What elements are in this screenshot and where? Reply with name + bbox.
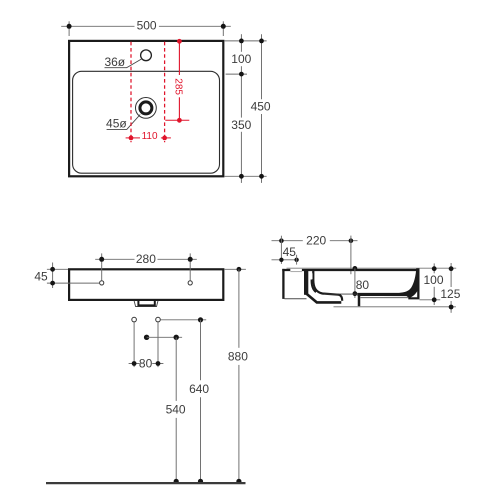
bowl wall thickening below overflow: [311, 280, 316, 293]
svg-text:80: 80: [139, 356, 153, 370]
red dimension 110 horizontal: [126, 137, 140, 139]
dimension 45 front: [52, 263, 54, 289]
dimension 640: [160, 319, 206, 321]
leader line 36ø: [105, 59, 142, 68]
dimension 45 side: [272, 259, 299, 261]
svg-text:450: 450: [251, 100, 271, 114]
top view inner basin rounded rectangle: [73, 71, 220, 173]
foot leader right: [420, 299, 441, 301]
top view outer rim rectangle: [69, 41, 223, 176]
dimension 220: [272, 240, 303, 242]
leader top right: [225, 40, 267, 42]
svg-text:280: 280: [136, 252, 156, 266]
wall fixing hole right: [188, 281, 192, 285]
drain right wall: [358, 294, 361, 306]
inner wall bar: [304, 271, 308, 295]
dimension line 100/350: [240, 34, 242, 52]
overflow slot: [309, 273, 313, 279]
drain mouth thin edge: [324, 293, 360, 295]
dimension 100 side: [433, 263, 435, 273]
side rim top line: [282, 269, 417, 271]
front view body rectangle: [69, 269, 223, 300]
dimension 540: [175, 337, 177, 401]
red dashed tap centerline right: [164, 42, 166, 143]
dimension 880: [225, 268, 246, 270]
drain tab outer outline: [134, 301, 158, 307]
drain outer circle: [136, 98, 157, 119]
svg-text:640: 640: [189, 382, 209, 396]
svg-text:36ø: 36ø: [104, 55, 125, 69]
svg-text:540: 540: [166, 403, 186, 417]
back wall outer edge: [282, 269, 284, 299]
dimension 500 top: [61, 25, 134, 27]
dimension line 450: [261, 34, 263, 99]
leader bottom right: [225, 175, 267, 177]
underside far edge thin: [360, 297, 408, 299]
drain bottom leader to 125: [334, 306, 456, 308]
underside left profile: [306, 294, 341, 303]
bowl left wall and bottom: [313, 271, 342, 301]
svg-text:350: 350: [231, 118, 251, 132]
fixing slot on rim: [290, 269, 302, 272]
wall fixing hole left: [100, 281, 104, 285]
rim plane leader line: [287, 267, 457, 269]
svg-text:100: 100: [423, 273, 443, 287]
drain stub hole left: [132, 317, 137, 322]
dimension 280: [95, 258, 134, 260]
drain stub hole right: [156, 317, 161, 322]
red dashed tap centerline left: [130, 42, 132, 143]
svg-text:285: 285: [173, 78, 184, 95]
svg-text:45ø: 45ø: [106, 117, 127, 131]
red dimension 285 vertical line: [178, 41, 180, 75]
dimension 80 side: [353, 266, 358, 271]
svg-text:45: 45: [283, 245, 297, 259]
drain tab inner thick U: [138, 301, 154, 306]
dimension 125 side: [450, 263, 452, 287]
svg-text:45: 45: [34, 269, 48, 283]
drain inner ring 45mm: [140, 102, 152, 114]
svg-text:80: 80: [356, 278, 370, 292]
floor line: [46, 482, 246, 484]
cavity bottom thin line: [285, 298, 307, 300]
svg-text:880: 880: [228, 350, 248, 364]
leader line 45ø: [107, 115, 141, 130]
svg-text:125: 125: [440, 287, 460, 301]
svg-text:500: 500: [137, 19, 157, 33]
svg-text:220: 220: [306, 233, 326, 247]
svg-text:100: 100: [231, 52, 251, 66]
bowl bottom right + front wall section fill: [357, 268, 419, 299]
dimension 80 front: [133, 322, 135, 367]
svg-text:110: 110: [142, 131, 158, 142]
tap hole circle 36mm: [141, 50, 152, 61]
leader inner rim right: [226, 73, 247, 75]
siphon center dot: [144, 335, 149, 340]
